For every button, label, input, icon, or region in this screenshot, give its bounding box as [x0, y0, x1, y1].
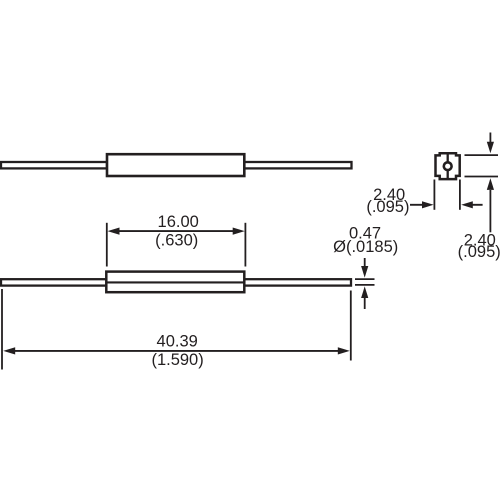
dim 16.00: dimension line with arrows	[116, 230, 236, 232]
top side view: body	[107, 154, 244, 176]
dim 2.40 width: right arrow pointing left	[472, 204, 483, 206]
svg-text:(1.590): (1.590)	[151, 351, 203, 369]
dim 2.40 width: left arrow pointing right	[410, 204, 423, 206]
bottom side view: right lead	[244, 279, 351, 285]
dim 2.40 height: bottom arrow pointing up	[489, 190, 491, 232]
dim 16.00: extension lines	[106, 223, 108, 267]
dim 0.47: upper arrow pointing down	[364, 258, 366, 268]
end view circle	[444, 162, 452, 170]
dim 2.40 height: top arrow pointing down	[489, 133, 491, 144]
bottom side view: left lead	[1, 279, 107, 285]
svg-text:(.095): (.095)	[366, 198, 409, 216]
dim 2.40 width: extension lines below end view	[433, 180, 435, 210]
dim 0.47 lead dia: witness lines	[355, 278, 375, 280]
end view outline	[436, 153, 460, 179]
svg-text:(.095): (.095)	[458, 243, 500, 261]
top side view: right lead	[244, 162, 352, 168]
dim 40.39: extension lines	[1, 289, 3, 370]
end view center line	[447, 153, 449, 179]
dim 2.40 height: witness lines right of end view	[465, 154, 499, 156]
svg-text:Ø(.0185): Ø(.0185)	[333, 238, 398, 256]
bottom side view: body	[106, 272, 244, 293]
svg-text:(.630): (.630)	[155, 232, 198, 250]
bottom side view: body center line	[106, 281, 244, 283]
svg-text:16.00: 16.00	[158, 213, 199, 231]
dim 0.47: lower arrow pointing up	[364, 297, 366, 309]
dim 40.39: dimension line with arrows	[12, 350, 341, 352]
top side view: left lead	[1, 162, 107, 168]
svg-text:40.39: 40.39	[157, 332, 198, 350]
